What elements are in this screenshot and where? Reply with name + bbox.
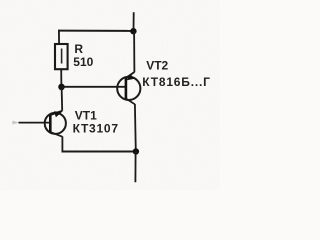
wire bottom rail <box>62 151 137 153</box>
wire VT1 collector lead up <box>61 87 64 111</box>
wire VT2 emitter vertical <box>133 31 135 72</box>
wire VT1 emitter lead down <box>61 136 63 151</box>
transistor VT1 КТ3107 <box>45 111 66 137</box>
wire VT1 base lead <box>19 122 51 124</box>
wire top rail <box>58 30 134 32</box>
input arrow <box>12 121 18 125</box>
wire top supply stub <box>133 12 135 31</box>
wire resistor top lead <box>58 30 60 45</box>
resistor R <box>55 44 68 69</box>
node top junction <box>130 28 136 34</box>
wire VT2 collector lead down <box>134 104 137 152</box>
node bottom junction <box>133 148 139 154</box>
wire resistor bottom lead <box>60 69 62 87</box>
wire VT2 base lead <box>62 86 126 88</box>
transistor VT2 КТ816Б...Г <box>117 72 140 104</box>
wire bottom stub <box>134 152 136 183</box>
node A junction (R / VT1 collector / VT2 base) <box>58 84 65 91</box>
